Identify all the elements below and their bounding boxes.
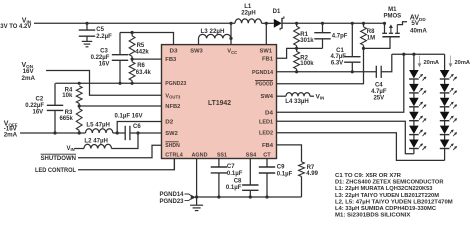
svg-text:C9: C9	[277, 165, 285, 171]
svg-text:D3: D3	[170, 49, 179, 55]
svg-text:SHUTDOWN: SHUTDOWN	[41, 156, 77, 162]
svg-text:C4: C4	[375, 83, 383, 89]
svg-text:D4: D4	[265, 110, 274, 116]
svg-text:5V: 5V	[411, 20, 419, 27]
svg-text:63.4k: 63.4k	[136, 70, 152, 76]
svg-text:PMOS: PMOS	[383, 14, 401, 20]
svg-text:L1: 22µH MURATA LQH32CN220K53: L1: 22µH MURATA LQH32CN220K53	[335, 186, 433, 192]
svg-text:R5: R5	[137, 43, 145, 49]
svg-text:D1: D1	[273, 9, 281, 15]
svg-text:0.1µF 16V: 0.1µF 16V	[115, 114, 143, 120]
svg-text:L5 47µH: L5 47µH	[86, 123, 110, 129]
svg-text:L2, L5: 47µH TAIYO YUDEN LB201: L2, L5: 47µH TAIYO YUDEN LB2012T470M	[335, 199, 453, 205]
svg-text:0.1µF: 0.1µF	[227, 171, 243, 177]
svg-text:AGND: AGND	[192, 152, 208, 158]
svg-text:3V TO 4.2V: 3V TO 4.2V	[0, 23, 32, 30]
svg-text:C2: C2	[36, 96, 44, 102]
svg-text:SW3: SW3	[190, 49, 203, 55]
svg-text:1M: 1M	[367, 36, 375, 42]
svg-text:LED CONTROL: LED CONTROL	[35, 168, 76, 174]
svg-text:L2 47µH: L2 47µH	[84, 139, 108, 145]
svg-text:CTRL4: CTRL4	[165, 152, 183, 158]
svg-text:6.3V: 6.3V	[331, 61, 343, 67]
svg-text:C6: C6	[133, 124, 141, 130]
svg-text:C5: C5	[96, 27, 104, 33]
svg-text:LED2: LED2	[259, 131, 273, 137]
svg-text:NFB2: NFB2	[165, 104, 180, 110]
svg-text:D1: ZHCS400 ZETEX SEMICONDUCTO: D1: ZHCS400 ZETEX SEMICONDUCTOR	[335, 180, 444, 186]
svg-text:4.7µF: 4.7µF	[330, 54, 346, 60]
svg-text:VIN: VIN	[67, 146, 75, 152]
svg-text:20mA: 20mA	[424, 60, 440, 66]
svg-text:2.2µF: 2.2µF	[96, 34, 112, 40]
svg-text:CT: CT	[263, 152, 271, 158]
svg-text:SS1: SS1	[217, 152, 228, 158]
svg-text:100k: 100k	[300, 61, 314, 67]
svg-text:10k: 10k	[62, 93, 73, 99]
svg-text:PGND14: PGND14	[159, 192, 184, 198]
svg-text:25V: 25V	[373, 95, 384, 101]
svg-text:L3 22µH: L3 22µH	[201, 29, 225, 35]
svg-text:SW2: SW2	[165, 131, 178, 137]
svg-text:R8: R8	[367, 29, 375, 35]
svg-text:4.7µF: 4.7µF	[371, 89, 387, 95]
svg-text:L1: L1	[244, 4, 252, 10]
svg-text:2mA: 2mA	[4, 131, 18, 138]
svg-text:0.22µF: 0.22µF	[25, 103, 44, 109]
svg-text:R7: R7	[307, 165, 315, 171]
svg-text:PGND23: PGND23	[165, 81, 187, 87]
svg-text:665k: 665k	[59, 116, 73, 122]
svg-text:301k: 301k	[300, 38, 314, 44]
svg-text:L4: 33µH SUMIDA CDPH4D19-330MC: L4: 33µH SUMIDA CDPH4D19-330MC	[335, 206, 437, 212]
svg-text:16V: 16V	[33, 110, 44, 116]
svg-text:0.1µF: 0.1µF	[226, 185, 242, 191]
svg-text:R6: R6	[137, 63, 145, 69]
svg-text:4.99: 4.99	[306, 171, 318, 177]
svg-text:C8: C8	[234, 178, 242, 184]
svg-text:SW4: SW4	[261, 94, 274, 100]
svg-text:M1: Si2301BDS SILICONIX: M1: Si2301BDS SILICONIX	[335, 213, 410, 219]
svg-text:0.22µF: 0.22µF	[91, 55, 110, 61]
svg-text:SHDN: SHDN	[165, 143, 180, 149]
svg-text:M1: M1	[388, 7, 397, 13]
svg-text:FB4: FB4	[262, 143, 274, 149]
svg-text:4.7pF: 4.7pF	[332, 33, 348, 39]
svg-text:L4 33µH: L4 33µH	[285, 99, 309, 105]
svg-text:VIN: VIN	[316, 94, 325, 101]
svg-text:SW1: SW1	[260, 49, 273, 55]
svg-text:VOUT3: VOUT3	[165, 93, 181, 99]
svg-text:0.1µF: 0.1µF	[277, 172, 293, 178]
svg-text:PGND23: PGND23	[159, 199, 184, 205]
svg-text:40mA: 40mA	[410, 28, 427, 35]
svg-text:20mA: 20mA	[455, 60, 471, 66]
svg-text:L3: 22µH TAIYO YUDEN LB2012T22: L3: 22µH TAIYO YUDEN LB2012T220M	[335, 193, 439, 199]
svg-text:LT1942: LT1942	[208, 98, 231, 107]
svg-text:PGND14: PGND14	[252, 70, 274, 76]
svg-text:FB3: FB3	[165, 57, 177, 63]
svg-text:FB1: FB1	[262, 56, 274, 62]
svg-text:C1 TO C9: X5R OR X7R: C1 TO C9: X5R OR X7R	[335, 173, 402, 179]
svg-text:D2: D2	[165, 120, 173, 126]
svg-text:2mA: 2mA	[22, 75, 36, 82]
svg-text:22µH: 22µH	[241, 10, 255, 16]
svg-text:VCC: VCC	[227, 49, 237, 55]
svg-text:442k: 442k	[135, 50, 149, 56]
svg-text:16V: 16V	[99, 62, 110, 68]
svg-text:C7: C7	[227, 164, 235, 170]
svg-text:C3: C3	[100, 49, 108, 55]
svg-text:LED1: LED1	[259, 119, 274, 125]
svg-text:PGOOD: PGOOD	[256, 82, 274, 88]
svg-text:SS4: SS4	[246, 152, 257, 158]
